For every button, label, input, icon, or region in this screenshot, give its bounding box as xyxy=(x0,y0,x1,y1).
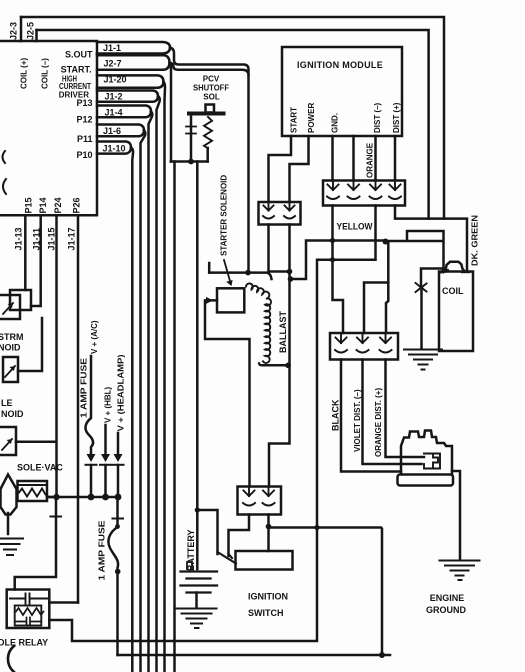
wire from condenser to ground xyxy=(420,291,423,349)
svg-text:DLE RELAY: DLE RELAY xyxy=(0,638,48,648)
ground symbol near coil xyxy=(404,350,442,370)
svg-text:P10: P10 xyxy=(76,150,92,160)
wire W1 from J2-3 across top xyxy=(21,17,444,219)
svg-text:J1-1: J1-1 xyxy=(103,43,121,53)
sole-vac resistor zigzag xyxy=(19,489,46,497)
svg-text:PCV: PCV xyxy=(203,75,220,84)
svg-text:DIST (+): DIST (+) xyxy=(392,102,401,133)
tick on fuse wire xyxy=(113,518,124,520)
V+ (A/C) fused wire xyxy=(85,356,93,456)
svg-text:BALLAST: BALLAST xyxy=(278,311,288,353)
svg-text:VIOLET DIST. (–): VIOLET DIST. (–) xyxy=(353,389,362,452)
solenoid arrow B3 xyxy=(2,439,12,450)
connector C1 pin arcs xyxy=(263,216,295,219)
coil tower xyxy=(446,262,465,272)
sole-vac ground symbol xyxy=(0,539,23,556)
svg-text:P14: P14 xyxy=(38,197,48,213)
pin slot J1-4 xyxy=(97,106,151,118)
svg-text:DK. GREEN: DK. GREEN xyxy=(471,215,480,266)
starter solenoid left terminal wire xyxy=(205,300,250,486)
svg-text:IGNITION: IGNITION xyxy=(248,592,288,602)
svg-text:DIST (–): DIST (–) xyxy=(373,102,382,133)
svg-text:COIL: COIL xyxy=(442,286,464,296)
pin J2-5 xyxy=(35,30,38,41)
ignition module box U1 xyxy=(282,47,402,136)
sole-vac stem xyxy=(7,513,10,534)
bead dot on fuse wire xyxy=(115,524,120,529)
pin slot J1-6 xyxy=(97,125,144,137)
wire W2 from J2-5 across top xyxy=(37,30,429,219)
idle relay inner box xyxy=(15,606,42,626)
svg-text:J1-2: J1-2 xyxy=(105,92,123,102)
pin slot J2-7 xyxy=(97,55,170,69)
svg-text:J2-5: J2-5 xyxy=(26,22,36,40)
junction dot row HBL xyxy=(102,494,109,501)
wire distributor to engine ground xyxy=(452,471,460,560)
ballast resistor coil xyxy=(246,283,271,363)
idle solenoid box B3 xyxy=(0,427,16,455)
junction dot feeder/header xyxy=(245,270,251,276)
starter solenoid header wire xyxy=(209,273,271,279)
battery trunk wire from PCV node down to battery xyxy=(196,162,199,570)
condenser arrow symbol xyxy=(416,281,427,293)
svg-text:P26: P26 xyxy=(72,197,82,213)
junction dot yellow left end xyxy=(288,276,294,282)
svg-text:J1-20: J1-20 xyxy=(104,75,127,85)
wire from row down to idle relay xyxy=(15,497,56,590)
svg-text:J1-6: J1-6 xyxy=(103,126,121,136)
junction dot feed/trunk xyxy=(314,525,319,530)
wire relay to J1-17 feed xyxy=(49,601,78,604)
svg-text:ORANGE: ORANGE xyxy=(366,142,375,178)
svg-text:J2-7: J2-7 xyxy=(104,59,122,69)
distributor cap body xyxy=(401,431,452,475)
wire from C1 pin2 down through ballast junction to ignition switch connector xyxy=(269,225,290,487)
ballast bottom tail to junction xyxy=(259,364,290,366)
battery symbol plates xyxy=(181,572,218,593)
wire from J1-4 down long vertical xyxy=(149,111,153,672)
junction dot C1 wires xyxy=(287,269,293,275)
connector C3 pin arrows xyxy=(336,333,392,343)
PCV coil winding xyxy=(204,117,212,148)
ECU bottom pin wire J1-17 xyxy=(77,215,80,602)
connector C2 four-pin xyxy=(323,181,405,206)
wire from unlabeled module pin xyxy=(352,136,355,181)
leader arrow from STARTER SOLENOID label xyxy=(224,260,230,281)
left edge bracket fragment 2 xyxy=(3,179,6,194)
pin slot J1-10 xyxy=(97,142,131,154)
wire from J1-2 down long vertical xyxy=(157,96,160,672)
connector C2 pin arrows xyxy=(328,181,401,191)
wire from DIST(+) pin xyxy=(394,136,397,181)
ECU bottom pin wire J1-11 xyxy=(31,215,41,306)
yellow wire H1 xyxy=(290,241,386,280)
svg-text:J1-4: J1-4 xyxy=(105,108,123,118)
idle relay capacitor top xyxy=(10,594,49,604)
wire from bottom rail up to ignition switch feed xyxy=(269,528,383,656)
pin slot J1-20 xyxy=(97,75,164,87)
connector C1 pin arrows xyxy=(264,202,295,211)
svg-text:P24: P24 xyxy=(53,197,63,213)
violet wire to distributor xyxy=(363,360,422,465)
PCV coil tail xyxy=(206,148,209,162)
wire H2 from DIST(-) to ignition switch trunk xyxy=(49,206,375,642)
wire from J1-1 to feeder xyxy=(170,48,249,273)
connector C1 under START/POWER xyxy=(259,202,301,225)
switch arm xyxy=(218,552,237,564)
starter solenoid box xyxy=(217,288,244,312)
connector ticks on PCV left lead xyxy=(186,127,196,134)
wire C4 pin1 to switch arm xyxy=(229,515,250,557)
svg-text:J1-15: J1-15 xyxy=(47,227,57,250)
junction dot bottom rail xyxy=(379,652,385,658)
svg-text:POWER: POWER xyxy=(307,103,316,133)
sole-vac pot body xyxy=(1,475,17,515)
solenoid box B1 lower rect xyxy=(0,295,20,319)
svg-text:SHUTOFF: SHUTOFF xyxy=(193,84,229,93)
svg-text:COIL (+): COIL (+) xyxy=(20,57,29,89)
wire from J1-10 down long vertical xyxy=(131,147,133,672)
coil negative terminal tick xyxy=(441,270,448,273)
wire from J1-20 down long vertical xyxy=(164,82,166,672)
svg-text:SWITCH: SWITCH xyxy=(248,608,284,618)
svg-text:J1-17: J1-17 xyxy=(67,227,77,250)
long vertical wire from PCV node xyxy=(173,162,176,672)
svg-text:P11: P11 xyxy=(77,134,93,144)
svg-text:J1-10: J1-10 xyxy=(103,144,126,154)
svg-text:P15: P15 xyxy=(24,197,34,213)
starter solenoid header left stub xyxy=(208,263,211,273)
wire from yellow node down to orange dist pin xyxy=(386,243,388,333)
junction dot ballast/start-power wire xyxy=(285,363,291,369)
svg-text:SOL: SOL xyxy=(203,93,220,102)
idle relay resistor zigzag xyxy=(16,608,44,615)
svg-text:J2-3: J2-3 xyxy=(9,22,19,40)
svg-text:SOLE·VAC: SOLE·VAC xyxy=(17,463,63,473)
bead dot under fuse xyxy=(115,569,121,575)
svg-text:YELLOW: YELLOW xyxy=(337,222,373,232)
svg-text:NOID: NOID xyxy=(1,409,24,419)
distributor rotor key xyxy=(424,454,440,469)
svg-text:GROUND: GROUND xyxy=(426,605,466,615)
lower connector C3 xyxy=(330,333,398,360)
svg-text:IGNITION MODULE: IGNITION MODULE xyxy=(297,60,383,70)
svg-text:J1-11: J1-11 xyxy=(32,228,42,251)
svg-text:J1-13: J1-13 xyxy=(14,227,24,250)
bottom-left arc fragment xyxy=(8,646,14,672)
ignition switch box xyxy=(236,551,293,570)
wire from C1 pin1 down xyxy=(269,225,290,272)
ECU bottom pin wire J1-13 xyxy=(24,215,27,290)
PCV left lead xyxy=(190,116,193,162)
junction node yellow blob xyxy=(383,239,389,245)
wire battery branch to switch arm xyxy=(197,510,218,554)
connector C4 pin arrows xyxy=(244,487,275,497)
V+ (HEADLAMP) wire xyxy=(117,433,120,456)
sole-vac resistor bar xyxy=(18,484,48,486)
svg-text:START: START xyxy=(290,107,299,133)
wire C4 pin2 to switch xyxy=(267,515,270,552)
svg-text:1 AMP FUSE: 1 AMP FUSE xyxy=(98,520,107,581)
junction dot row A/C xyxy=(88,494,95,501)
battery positive nub xyxy=(187,562,192,569)
stub wire from B2 to upper wires xyxy=(18,318,42,371)
engine ground symbol xyxy=(440,561,480,581)
bottom rail wire xyxy=(118,654,391,657)
connector C3 pin arcs xyxy=(335,350,392,353)
wire from GND pin xyxy=(331,136,334,181)
1 amp fuse wire to bottom rail xyxy=(108,497,118,655)
connector C4 pin arcs xyxy=(243,503,275,506)
svg-text:COIL (–): COIL (–) xyxy=(41,58,50,89)
pin J2-3 xyxy=(20,17,23,41)
svg-text:P13: P13 xyxy=(76,98,92,108)
DIST(+) wire across to coil positive xyxy=(395,206,467,272)
coil positive terminal tick xyxy=(462,271,469,273)
ECU module box (top-left, clipped) xyxy=(0,41,97,215)
branch wire to violet dist pin xyxy=(364,283,388,334)
junction dot trunk/ignition-switch branch xyxy=(195,507,200,512)
svg-text:BLACK: BLACK xyxy=(331,399,341,431)
solenoid arrow B1 xyxy=(3,303,13,314)
ignition switch connector C4 xyxy=(238,487,282,515)
tick on A/C wire xyxy=(86,464,97,466)
GND chain wire down to lower connector xyxy=(333,206,344,334)
wire from J2-7 to feeder xyxy=(170,62,249,161)
battery to ground wire xyxy=(195,593,198,608)
solenoid box B2 xyxy=(3,357,18,382)
power junction row xyxy=(47,496,118,499)
solenoid arrow B2 xyxy=(5,366,15,377)
junction dot PCV node xyxy=(188,159,194,165)
wire A from yellow node to coil negative xyxy=(386,231,444,272)
battery ground symbol xyxy=(177,609,217,629)
PCV shutoff solenoid knob xyxy=(206,105,215,113)
svg-text:V + (HEADLAMP): V + (HEADLAMP) xyxy=(117,354,126,431)
svg-text:1 AMP FUSE: 1 AMP FUSE xyxy=(80,357,89,418)
svg-text:STRM: STRM xyxy=(0,332,24,342)
connector C2 pin arcs xyxy=(327,197,401,200)
svg-text:BATTERY: BATTERY xyxy=(186,530,196,572)
svg-text:S.OUT: S.OUT xyxy=(65,50,93,60)
junction dot pin2/feed xyxy=(266,524,272,530)
svg-text:STARTER SOLENOID: STARTER SOLENOID xyxy=(220,175,229,256)
coil box xyxy=(439,272,473,352)
wire from J1-6 down long vertical xyxy=(141,130,146,672)
tick on relay feed wire xyxy=(51,516,62,518)
orange wire to distributor xyxy=(386,360,425,458)
V+ (HBL) wire xyxy=(104,425,107,456)
solenoid box B1 upper rect xyxy=(10,290,31,310)
PCV node wire xyxy=(171,160,208,163)
svg-text:GND.: GND. xyxy=(331,113,340,133)
black wire to distributor xyxy=(341,360,401,472)
PCV shutoff solenoid bar xyxy=(189,112,224,116)
ECU bottom pin wire J1-15 xyxy=(16,215,57,497)
junction dot GND/H2 wire xyxy=(330,257,335,262)
svg-text:START.: START. xyxy=(61,65,92,75)
arrowhead on solenoid left terminal xyxy=(206,297,213,304)
svg-text:ENGINE: ENGINE xyxy=(430,593,465,603)
wire from DIST(-) pin xyxy=(374,136,377,181)
wire resistor to junction row xyxy=(47,496,57,499)
wire from POWER pin xyxy=(290,136,309,202)
junction dot GND/yellow wire xyxy=(330,238,335,243)
sole-vac resistor box xyxy=(18,481,48,501)
junction dot row left xyxy=(53,494,59,500)
wire from START pin xyxy=(269,136,292,202)
distributor base plate xyxy=(398,475,454,486)
idle relay capacitor bottom xyxy=(16,618,41,626)
svg-text:P12: P12 xyxy=(76,115,92,125)
svg-text:ORANGE DIST. (+): ORANGE DIST. (+) xyxy=(374,388,383,457)
svg-text:V + (A/C): V + (A/C) xyxy=(90,320,99,354)
svg-text:LE: LE xyxy=(1,398,13,408)
pin slot J1-1 xyxy=(97,42,170,54)
branch wire to condenser arrow and ground xyxy=(421,269,444,285)
arrowhead on A/C wire xyxy=(87,454,96,462)
svg-text:V + (HBL): V + (HBL) xyxy=(104,386,113,423)
pin slot J1-2 xyxy=(97,91,158,102)
idle relay outer box xyxy=(7,590,50,629)
left edge bracket fragment 1 xyxy=(3,151,6,163)
svg-text:NOID: NOID xyxy=(0,343,21,353)
junction dot row HEADLAMP xyxy=(115,494,122,501)
